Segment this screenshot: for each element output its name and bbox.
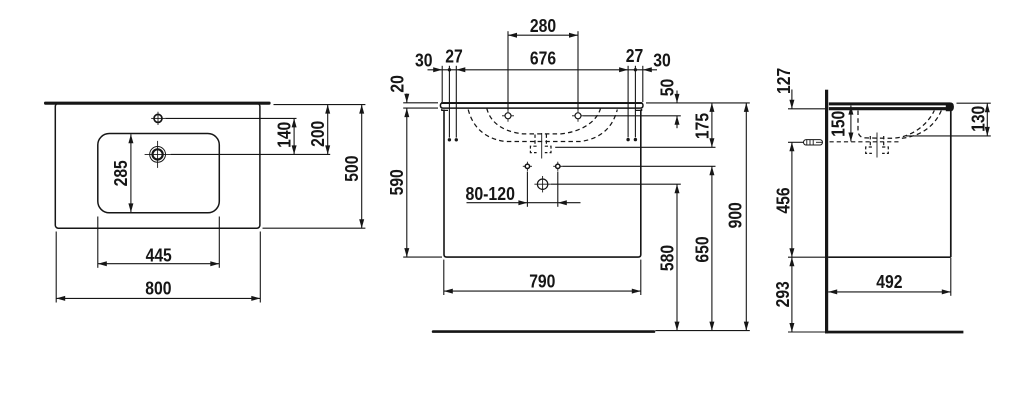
overflow hole circle xyxy=(154,114,162,122)
faucet hole outer thin circle xyxy=(150,147,166,163)
svg-text:30: 30 xyxy=(415,49,433,70)
bowl side dashed outline xyxy=(858,111,934,139)
ext line floor left xyxy=(788,331,825,333)
svg-text:790: 790 xyxy=(529,271,555,292)
ext line from faucet hole xyxy=(171,153,331,155)
fixing line left 2 xyxy=(455,66,457,138)
basin edge ext left xyxy=(441,66,443,102)
floor ext line right xyxy=(655,330,750,332)
dim line 285 xyxy=(130,134,132,212)
svg-text:30: 30 xyxy=(653,49,671,70)
dim 20 upper arrow xyxy=(406,94,408,103)
supply connection right xyxy=(556,164,560,168)
dim line 500 xyxy=(361,105,363,229)
dim line 900 xyxy=(745,103,747,331)
drain side center line xyxy=(876,133,878,158)
svg-text:293: 293 xyxy=(772,281,793,307)
ext lines 80-120 xyxy=(526,172,528,207)
washbasin top-view outer body xyxy=(55,103,260,228)
dim line 580 xyxy=(676,184,678,330)
dim line 445 xyxy=(98,263,220,265)
svg-text:127: 127 xyxy=(773,68,794,94)
floor line middle xyxy=(432,330,656,333)
dim line 650 xyxy=(711,166,713,330)
dim line 800 xyxy=(56,297,260,299)
svg-text:500: 500 xyxy=(341,156,362,182)
ext line deck top left xyxy=(403,102,438,104)
cabinet side front edge xyxy=(950,111,952,257)
dim line 790 xyxy=(444,290,641,292)
bowl outer dashed curve xyxy=(468,110,617,142)
washbasin deck side xyxy=(829,102,954,111)
fixing dot right 1 xyxy=(626,138,629,141)
bowl side inner curve xyxy=(901,111,941,139)
fixing line right 1 xyxy=(627,66,629,138)
ext line tap holes right xyxy=(584,115,681,117)
svg-text:800: 800 xyxy=(145,278,171,299)
svg-text:130: 130 xyxy=(967,106,988,132)
bowl inner dashed curve xyxy=(487,108,601,134)
svg-text:676: 676 xyxy=(530,48,556,69)
waste outlet symbol xyxy=(537,179,547,189)
ext cabinet bottom to left of wall xyxy=(788,256,828,258)
faucet hole crosshair xyxy=(157,141,159,168)
svg-text:27: 27 xyxy=(626,45,644,66)
supply connection left xyxy=(525,164,529,168)
ext line deck underside left xyxy=(788,108,825,110)
wall supply valve symbol xyxy=(804,140,823,145)
cabinet side bottom xyxy=(828,256,951,258)
ext line deck bottom left xyxy=(403,107,438,109)
svg-text:445: 445 xyxy=(146,245,172,266)
svg-text:175: 175 xyxy=(692,113,713,139)
dot 27 right xyxy=(634,68,637,71)
dim line 280 xyxy=(508,34,578,36)
overflow hole cross ticks xyxy=(157,112,159,125)
fixing line left 1 xyxy=(448,66,450,138)
fixing dot left 2 xyxy=(455,138,458,141)
arrow 676 right xyxy=(619,67,628,72)
svg-text:285: 285 xyxy=(110,160,131,186)
ext line waste right xyxy=(551,183,681,185)
svg-text:650: 650 xyxy=(692,236,713,262)
svg-text:580: 580 xyxy=(657,245,678,271)
svg-text:80-120: 80-120 xyxy=(466,183,515,204)
dot 27 left xyxy=(448,68,451,71)
svg-text:150: 150 xyxy=(828,111,849,137)
fixing dot left 1 xyxy=(448,138,451,141)
ext line bowl bottom right side xyxy=(906,135,991,137)
drain side dashed xyxy=(869,136,871,146)
arrow 30 right xyxy=(643,67,652,72)
ext lines 280 xyxy=(507,31,509,110)
ext line 492 right xyxy=(950,258,952,296)
fixing line right 2 xyxy=(634,66,636,138)
dim line 456 xyxy=(791,142,793,257)
drain fitting dashed front xyxy=(534,135,536,146)
drain center line xyxy=(541,133,543,159)
dim line 140 xyxy=(293,118,295,154)
ext line from basin bottom right xyxy=(263,227,366,229)
ext line from top bar right xyxy=(274,104,366,106)
dim line 175 xyxy=(711,103,713,147)
svg-text:27: 27 xyxy=(445,46,463,67)
supply dashed line side xyxy=(830,141,902,143)
svg-text:590: 590 xyxy=(386,169,407,195)
ext line valve left xyxy=(788,141,804,143)
dim line 492 xyxy=(828,291,951,293)
ext line supply right xyxy=(562,165,715,167)
svg-text:900: 900 xyxy=(725,202,746,228)
deck tap hole left xyxy=(505,113,511,119)
fixing dot right 2 xyxy=(634,138,637,141)
dim line 200 xyxy=(327,105,329,155)
dim 127 arrow xyxy=(791,90,793,109)
ext lines 445 xyxy=(97,217,99,268)
deck left lip xyxy=(442,109,448,111)
cabinet front body xyxy=(444,110,641,258)
dim line 293 side xyxy=(791,257,793,332)
wall side view xyxy=(825,90,828,334)
deck right lip xyxy=(635,109,641,111)
basin edge ext right xyxy=(642,66,644,102)
svg-text:50: 50 xyxy=(657,79,678,97)
washbasin deck front xyxy=(440,103,643,108)
svg-text:20: 20 xyxy=(386,75,407,93)
washbasin top-view back rail (thick bar) xyxy=(44,102,271,105)
ext line cabinet bottom left xyxy=(403,256,442,258)
svg-text:140: 140 xyxy=(274,122,295,148)
svg-text:492: 492 xyxy=(876,271,902,292)
dim line 80-120 xyxy=(467,202,581,204)
arrow 30 left xyxy=(433,67,442,72)
ext lines 790 xyxy=(443,260,445,295)
faucet hole bold circle xyxy=(153,149,163,159)
washbasin inner bowl rounded rect xyxy=(98,134,220,213)
deck top edge emphasis xyxy=(441,102,642,104)
ext line deck top right xyxy=(646,102,750,104)
svg-text:456: 456 xyxy=(773,187,794,213)
ext line deck top right side xyxy=(957,102,991,104)
svg-text:200: 200 xyxy=(307,121,328,147)
dim line 130 xyxy=(986,103,988,136)
ext line drain right xyxy=(555,146,715,148)
ext lines 800 xyxy=(55,232,57,303)
dim line 30-27-676-27-30 xyxy=(428,69,658,71)
deck tap hole right xyxy=(575,113,581,119)
arrow 676 left xyxy=(456,67,465,72)
ext line from overflow hole xyxy=(165,117,296,119)
dim line 150 xyxy=(850,106,852,142)
floor side view xyxy=(825,331,963,334)
dim line 590 xyxy=(406,108,408,257)
svg-text:280: 280 xyxy=(530,15,556,36)
dim 50 arrows xyxy=(676,91,678,103)
